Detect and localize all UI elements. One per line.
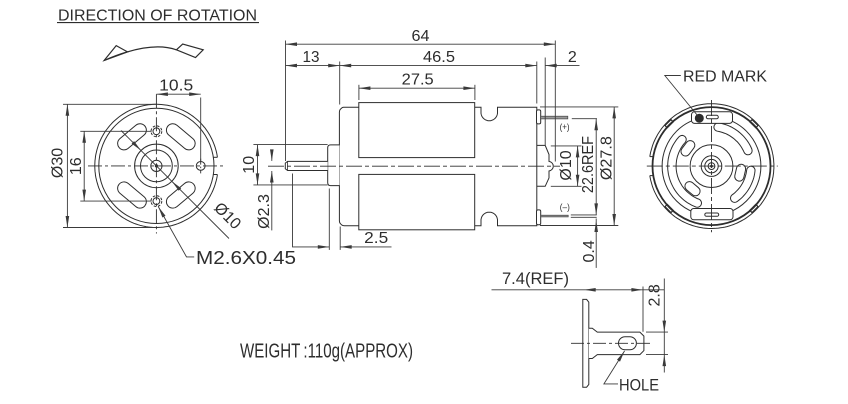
title underline bbox=[57, 22, 259, 24]
front side hole vertical tick bbox=[200, 159, 202, 174]
label HOLE leader bbox=[604, 351, 625, 384]
rear crimp jog 3 bbox=[665, 204, 673, 212]
dim 10 ext bottom bbox=[253, 184, 327, 186]
rear shaft outer circle bbox=[705, 159, 718, 172]
rear vertical centerline bbox=[711, 100, 713, 232]
front vent slot 1 bbox=[164, 121, 198, 152]
svg-text:10.5: 10.5 bbox=[159, 78, 193, 95]
terminal (+) extension line bbox=[572, 118, 597, 120]
dim Ø27.8 line bbox=[613, 107, 615, 226]
front gap stub bottom bbox=[213, 174, 217, 176]
front vent slot 4 bbox=[164, 179, 198, 210]
dim 2 ext bbox=[544, 58, 546, 146]
rear end cap inner circle bbox=[662, 117, 761, 216]
front side hole bbox=[196, 162, 205, 171]
rear crimp jog 1 bbox=[750, 120, 758, 128]
dim 2.8 ext bottom bbox=[646, 354, 668, 356]
rear small vent slot 2 bbox=[683, 180, 702, 198]
svg-text:HOLE: HOLE bbox=[619, 376, 659, 395]
dim 2.8 ext top bbox=[646, 331, 668, 333]
motor shaft bbox=[285, 161, 327, 170]
dim Ø10 arrow upper bbox=[132, 141, 141, 150]
rear arc slot top-right bbox=[714, 123, 752, 155]
front view outer case circle (with right gap) bbox=[95, 104, 218, 227]
dim 22.6REF line bbox=[595, 119, 597, 215]
dim 2.5 ext left bbox=[328, 189, 330, 250]
dim Ø30 extension bottom bbox=[63, 227, 156, 229]
svg-text:2.5: 2.5 bbox=[364, 230, 388, 247]
detail centerline bbox=[571, 342, 652, 344]
dim 10.5 extension right bbox=[200, 98, 202, 162]
front vertical centerline bbox=[155, 94, 157, 233]
svg-text:46.5: 46.5 bbox=[423, 49, 455, 66]
dim Ø27.8 ext bottom bbox=[540, 225, 618, 227]
front boss inner circle bbox=[141, 150, 173, 182]
svg-text:16: 16 bbox=[68, 157, 85, 175]
rear small vent slot 3 bbox=[734, 163, 747, 182]
dim 27.5 line bbox=[359, 87, 475, 89]
dim 46.5 line bbox=[340, 65, 537, 67]
dim 27.5 ext left bbox=[358, 85, 360, 100]
red mark dot bbox=[695, 114, 703, 122]
dim 64 line bbox=[286, 43, 556, 45]
dim 27.5 ext right bbox=[474, 85, 476, 100]
terminal (+) tab bar bbox=[541, 116, 568, 119]
label M2.6X0.45 leader bbox=[158, 207, 194, 257]
front vent slot 2 bbox=[115, 121, 149, 152]
dim 2.5 hook line bbox=[293, 174, 330, 247]
rear gap stub top bbox=[650, 156, 654, 158]
svg-text:DIRECTION OF ROTATION: DIRECTION OF ROTATION bbox=[58, 7, 257, 24]
dim 10.5 line bbox=[156, 93, 200, 95]
dim 16 extension top bbox=[80, 130, 151, 132]
svg-text:Ø27.8: Ø27.8 bbox=[599, 136, 616, 180]
front shaft center dot bbox=[155, 165, 157, 167]
front gap stub top bbox=[213, 156, 217, 158]
rear boss circle bbox=[701, 156, 722, 177]
dim 2 line bbox=[545, 65, 579, 67]
dim 2.5 arrow left bbox=[318, 245, 330, 249]
front screw hole bottom inner bbox=[153, 198, 160, 205]
svg-text:Ø2.3: Ø2.3 bbox=[256, 194, 273, 229]
svg-text:RED MARK: RED MARK bbox=[683, 69, 767, 86]
rotation direction curved arrow bbox=[104, 47, 176, 61]
front bearing boss (side view) bbox=[328, 145, 340, 186]
rear arc slot bottom bbox=[731, 166, 756, 202]
dim 64 ext left bbox=[285, 41, 287, 162]
rear terminal housing top bbox=[692, 112, 733, 124]
terminal (-) extension upper bbox=[571, 214, 597, 216]
rear small vent slot 1 bbox=[679, 139, 697, 158]
dim 46.5 ext right bbox=[536, 62, 538, 104]
terminal (-) plate bbox=[537, 210, 541, 225]
dim Ø30 line bbox=[66, 104, 68, 227]
rear rim thick circle bbox=[653, 107, 771, 225]
dim 16 extension bottom bbox=[80, 200, 151, 202]
dim 10 ext top bbox=[253, 144, 327, 146]
front shaft circle bbox=[151, 160, 162, 171]
svg-text:2.8: 2.8 bbox=[647, 284, 664, 306]
dim Ø10 rear ext top bbox=[551, 145, 582, 147]
dim 13/46.5 ext mid bbox=[339, 62, 341, 105]
svg-text:0.4: 0.4 bbox=[581, 240, 598, 262]
dim Ø10 arrow lower bbox=[172, 181, 181, 190]
rear center dot bbox=[711, 165, 713, 167]
dim Ø2.3 line lower bbox=[271, 171, 273, 230]
rear crimp jog 2 bbox=[665, 120, 673, 128]
rear shaft circle bbox=[708, 163, 715, 170]
detail hole bbox=[619, 337, 637, 350]
dim 10 line bbox=[257, 145, 259, 185]
svg-text:M2.6X0.45: M2.6X0.45 bbox=[196, 248, 296, 268]
terminal (-) extension lower bbox=[571, 216, 597, 218]
dim 16 line bbox=[83, 131, 85, 201]
svg-text:WEIGHT :110g(APPROX): WEIGHT :110g(APPROX) bbox=[240, 340, 413, 362]
svg-text:2: 2 bbox=[568, 49, 577, 66]
dim 64 ext right bbox=[554, 41, 556, 162]
svg-text:10: 10 bbox=[241, 156, 258, 174]
svg-text:Ø30: Ø30 bbox=[49, 148, 66, 178]
rear gap stub bottom bbox=[650, 175, 654, 177]
rear terminal slot bottom bbox=[705, 213, 719, 216]
rear terminal slot top bbox=[706, 115, 718, 119]
rear bearing ring circle bbox=[690, 145, 733, 188]
rear bearing boss (side view) bbox=[537, 145, 554, 186]
dim 2.5 ext right bbox=[339, 227, 341, 250]
rear terminal housing bottom bbox=[691, 209, 733, 220]
front view inner rim circle bbox=[99, 108, 214, 223]
magnet band upper rect bbox=[359, 103, 475, 158]
front horizontal centerline bbox=[88, 165, 226, 167]
dim 2.8 line bbox=[663, 279, 665, 373]
dim Ø27.8 ext top bbox=[540, 106, 618, 108]
svg-text:22.6REF: 22.6REF bbox=[580, 136, 597, 193]
svg-text:(+): (+) bbox=[560, 122, 570, 133]
dim 2.5 line right bbox=[340, 246, 391, 248]
dim 13 line bbox=[286, 65, 340, 67]
side view centerline bbox=[268, 165, 560, 167]
terminal (-) tab bar bbox=[541, 215, 569, 217]
svg-text:13: 13 bbox=[303, 49, 320, 66]
rear horizontal centerline bbox=[647, 165, 778, 167]
rear arc slot left bbox=[668, 135, 702, 207]
dim Ø30 extension top bbox=[63, 103, 156, 105]
front screw hole bottom outer bbox=[151, 196, 162, 207]
detail plate bbox=[583, 299, 589, 387]
dim Ø2.3 line upper bbox=[271, 150, 273, 161]
terminal (+) plate bbox=[537, 110, 541, 124]
dim Ø10 leader diagonal bbox=[121, 131, 229, 239]
dim 0.4 line bbox=[595, 219, 597, 268]
magnet band lower rect bbox=[359, 174, 475, 229]
motor case + end cap outline (side view) bbox=[339, 107, 536, 226]
label RED MARK leader bbox=[665, 76, 698, 116]
dim Ø10 rear ext bottom bbox=[551, 185, 582, 187]
front screw hole top outer bbox=[151, 126, 162, 137]
dim 7.4(REF) line bbox=[492, 289, 665, 291]
svg-text:7.4(REF): 7.4(REF) bbox=[502, 269, 569, 288]
rear crimp jog 4 bbox=[750, 204, 758, 212]
front screw hole top inner bbox=[153, 128, 160, 135]
rear outer circle (with left gap) bbox=[650, 104, 774, 229]
front vent slot 3 bbox=[115, 179, 149, 210]
svg-text:Ø10: Ø10 bbox=[558, 150, 575, 180]
dim 7.4(REF) ext bbox=[642, 287, 644, 332]
svg-text:27.5: 27.5 bbox=[402, 72, 434, 89]
svg-text:64: 64 bbox=[412, 28, 430, 45]
detail terminal tab bbox=[589, 328, 644, 358]
shaft chamfer tick bbox=[287, 161, 289, 170]
svg-text:(–): (–) bbox=[560, 202, 570, 213]
front boss outer circle bbox=[135, 144, 179, 188]
dim Ø10 rear line bbox=[577, 146, 579, 186]
